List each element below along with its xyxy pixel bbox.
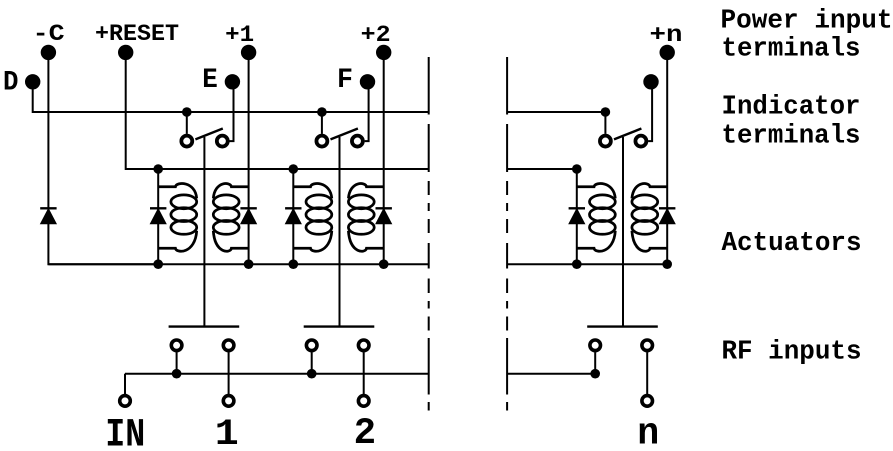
reset coil (cell n) [577, 184, 616, 252]
flyback diode reset (cell n) [569, 208, 585, 223]
terminal +RESET [118, 45, 133, 60]
wire indicator E to break contact [230, 82, 234, 141]
RF contact common (cell n) [590, 340, 601, 351]
node RF bus junction (cell n) [590, 369, 600, 379]
bottom actuator bus [48, 263, 428, 265]
flyback diode set (cell 1) [240, 208, 256, 223]
indicator terminal D [25, 74, 40, 89]
flyback diode reset (cell 2) [285, 208, 301, 223]
switch break contact (cell n) [635, 136, 646, 147]
flyback diode set (cell 2) [376, 208, 392, 223]
node RF bus junction (cell 2) [307, 369, 317, 379]
RF pivot bar (cell 1) [169, 325, 240, 327]
switch blade (cell 2) [331, 129, 358, 140]
reset coil (cell 2) [293, 184, 332, 252]
svg-text:n: n [637, 413, 659, 451]
indicator terminal indicator n [643, 74, 658, 89]
svg-text:-C: -C [33, 21, 65, 48]
wire RF common to bus (cell 1) [176, 352, 178, 374]
RF port circle (cell n) [642, 396, 653, 407]
switch make contact (cell n) [600, 136, 611, 147]
svg-text:terminals: terminals [722, 34, 861, 64]
svg-text:F: F [337, 65, 353, 96]
wire +n vertical [666, 52, 668, 264]
wire -C vertical [47, 52, 49, 207]
node bottom bus right (cell 1) [244, 259, 254, 269]
node indicator bus junction (cell n) [601, 107, 611, 117]
RF port circle (cell 2) [358, 396, 369, 407]
left continuation break line [428, 57, 430, 411]
wire junction to make contact (cell 2) [321, 112, 323, 134]
svg-text:+2: +2 [361, 22, 391, 49]
terminal +2 [376, 45, 391, 60]
armature link (cell 1) [203, 137, 205, 327]
svg-text:D: D [3, 67, 19, 98]
node indicator bus junction (cell 2) [317, 107, 327, 117]
RF contact output (cell 1) [223, 340, 234, 351]
RF pivot bar (cell 2) [304, 325, 375, 327]
RF contact common (cell 1) [171, 340, 182, 351]
wire +1 vertical [248, 52, 250, 264]
svg-text:IN: IN [105, 413, 145, 451]
svg-text:2: 2 [354, 413, 377, 451]
wire RF output drop (cell 2) [363, 352, 365, 394]
RF common bus (n) [507, 373, 595, 375]
RF port circle (cell 1) [223, 396, 234, 407]
indicator bus [33, 111, 429, 113]
RF contact common (cell 2) [306, 340, 317, 351]
RF contact output (cell 2) [358, 340, 369, 351]
switch blade (cell n) [614, 129, 641, 140]
reset coil (cell 1) [158, 184, 197, 252]
terminal +n [660, 45, 675, 60]
svg-text:E: E [202, 65, 218, 96]
switch make contact (cell 1) [181, 136, 192, 147]
node reset bus junction (cell 1) [153, 164, 163, 174]
wire junction to make contact (cell n) [604, 112, 606, 134]
RF common bus [125, 373, 429, 375]
node bottom bus left (cell 2) [289, 259, 299, 269]
wire +2 vertical [383, 52, 385, 264]
wire reset coil leg (cell 2) [292, 169, 294, 264]
wire indicator F to break contact [365, 82, 369, 141]
wire +RESET down to reset bus [126, 52, 159, 169]
bottom actuator bus (n) [507, 263, 667, 265]
svg-text:1: 1 [215, 414, 239, 451]
flyback diode set (cell n) [659, 208, 675, 223]
svg-text:RF inputs: RF inputs [722, 338, 862, 368]
armature link (cell n) [622, 137, 624, 327]
svg-text:+1: +1 [225, 22, 254, 49]
armature link (cell 2) [339, 137, 341, 327]
wire reset coil leg (cell n) [576, 169, 578, 264]
svg-text:Indicator: Indicator [722, 93, 861, 123]
svg-text:terminals: terminals [722, 121, 861, 151]
terminal -C [41, 45, 56, 60]
node reset bus junction (cell n) [572, 164, 582, 174]
RF pivot bar (cell n) [587, 325, 658, 327]
node bottom bus right (cell 2) [379, 259, 389, 269]
node reset bus junction (cell 2) [289, 164, 299, 174]
node bottom bus left (cell n) [572, 259, 582, 269]
set coil (cell 1) [213, 184, 248, 252]
wire RF output drop (cell 1) [228, 352, 230, 394]
node RF bus junction (cell 1) [172, 369, 182, 379]
RF port IN circle [120, 396, 131, 407]
set coil (cell n) [632, 184, 667, 252]
switch make contact (cell 2) [316, 136, 327, 147]
terminal +1 [241, 45, 256, 60]
switch blade (cell 1) [195, 129, 222, 140]
switch break contact (cell 1) [217, 136, 228, 147]
node bottom bus left (cell 1) [153, 259, 163, 269]
reset bus (n) [507, 168, 577, 170]
diode CR1 (on -C line) [40, 208, 56, 223]
wire indicator indicator n to break contact [648, 82, 652, 141]
node bottom bus right (cell n) [662, 259, 672, 269]
indicator bus (n) [507, 111, 605, 113]
wire RF common to bus (cell n) [594, 352, 596, 374]
switch break contact (cell 2) [352, 136, 363, 147]
wire RF output drop (cell n) [646, 352, 648, 394]
wire reset coil leg (cell 1) [157, 169, 159, 264]
indicator terminal E [225, 74, 240, 89]
svg-text:Power input: Power input [721, 7, 893, 37]
right continuation break line [506, 57, 508, 411]
wire RF common to bus (cell 2) [311, 352, 313, 374]
wire IN drop [124, 374, 126, 394]
wire -C to bottom bus corner [48, 223, 158, 264]
svg-text:+n: +n [650, 22, 683, 49]
indicator terminal F [360, 74, 375, 89]
wire junction to make contact (cell 1) [186, 112, 188, 134]
set coil (cell 2) [348, 184, 383, 252]
wire D to indicator bus [33, 82, 49, 112]
flyback diode reset (cell 1) [150, 208, 166, 223]
node indicator bus junction (cell 1) [182, 107, 192, 117]
svg-text:Actuators: Actuators [722, 229, 862, 259]
RF contact output (cell n) [642, 340, 653, 351]
svg-text:+RESET: +RESET [95, 21, 179, 48]
reset bus [158, 168, 429, 170]
